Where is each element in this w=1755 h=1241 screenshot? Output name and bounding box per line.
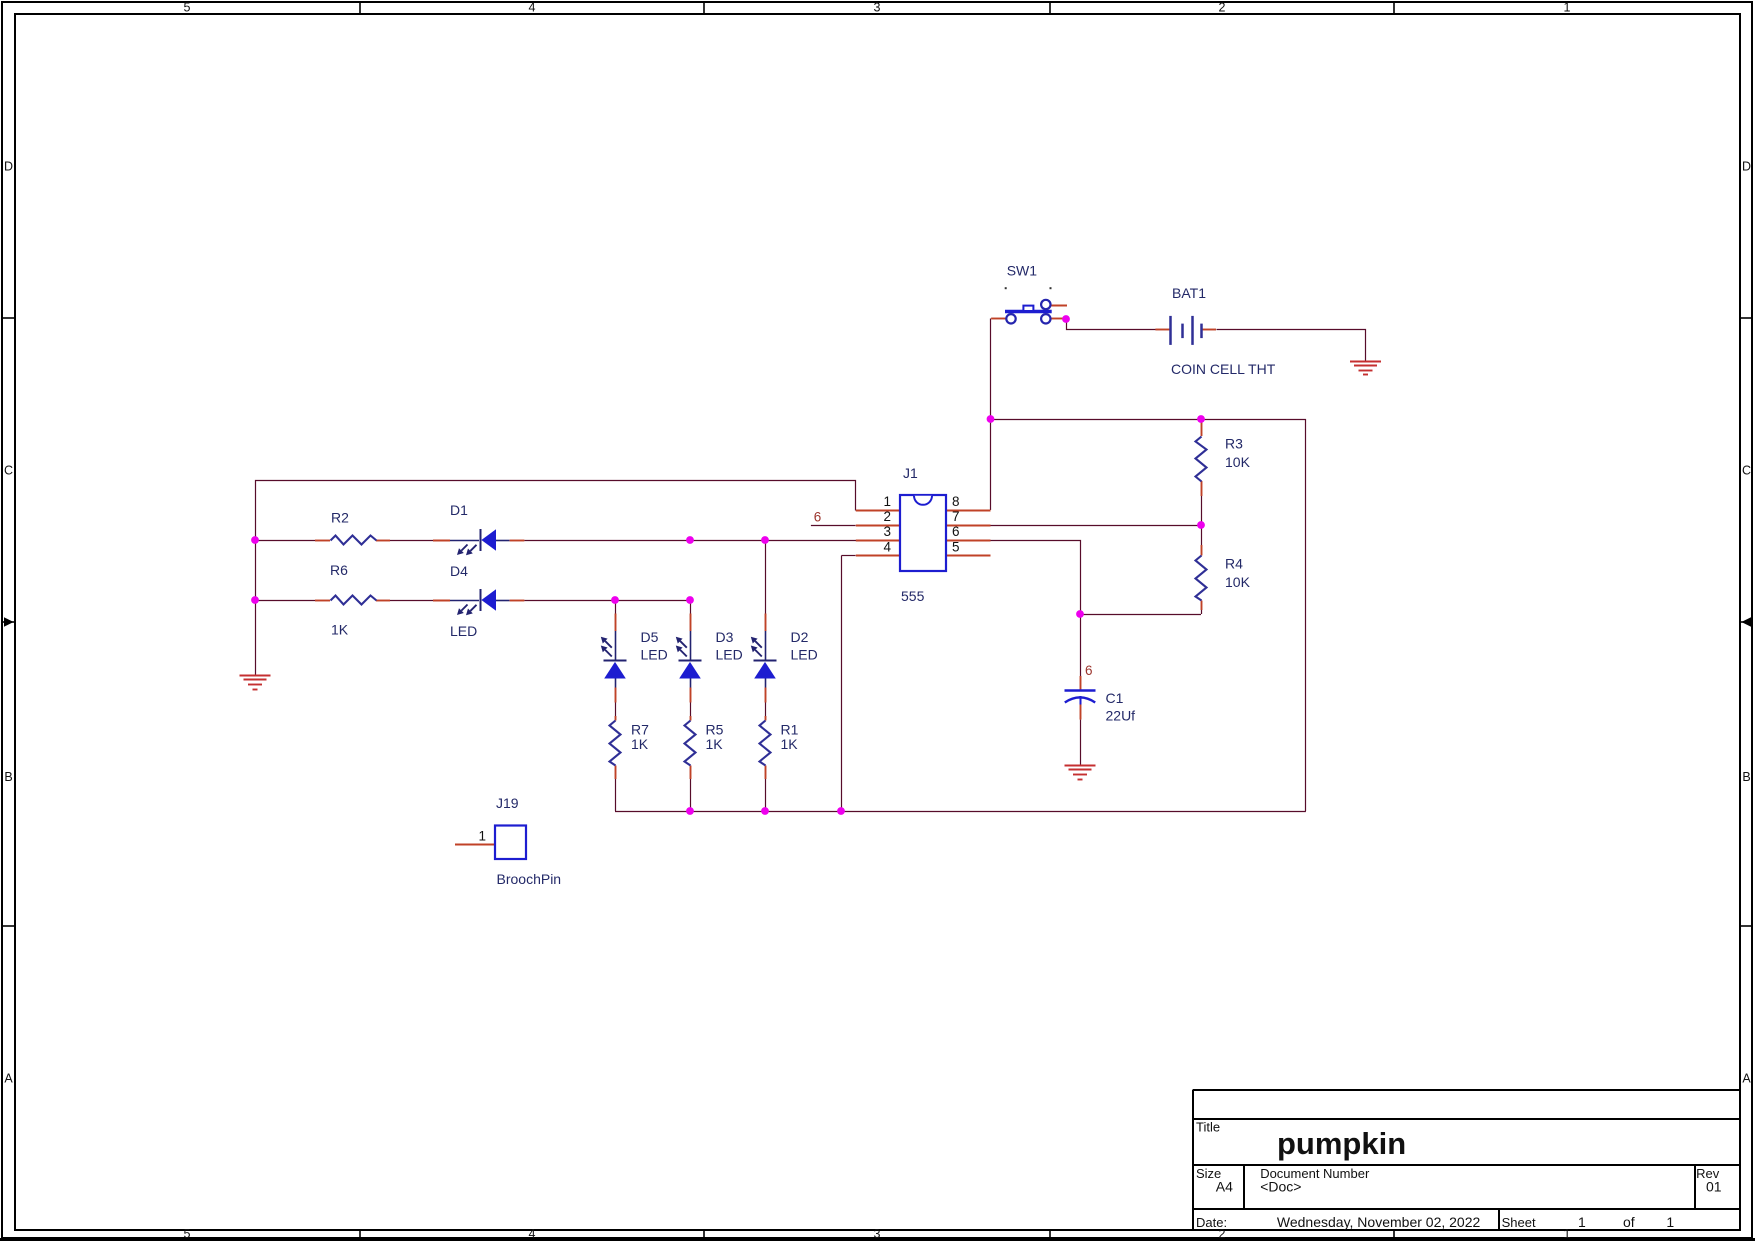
svg-text:2: 2 bbox=[883, 509, 891, 524]
svg-text:SW1: SW1 bbox=[1007, 263, 1038, 279]
svg-text:A: A bbox=[4, 1072, 13, 1086]
svg-text:6: 6 bbox=[1085, 663, 1093, 678]
svg-text:5: 5 bbox=[184, 1227, 191, 1241]
svg-text:4: 4 bbox=[529, 1227, 536, 1241]
svg-text:D: D bbox=[1742, 160, 1751, 174]
svg-text:A4: A4 bbox=[1216, 1178, 1233, 1194]
svg-text:BroochPin: BroochPin bbox=[497, 871, 562, 887]
svg-text:R4: R4 bbox=[1225, 556, 1243, 572]
svg-text:1K: 1K bbox=[781, 736, 799, 752]
svg-text:R3: R3 bbox=[1225, 436, 1243, 452]
svg-text:1: 1 bbox=[478, 829, 486, 844]
svg-text:4: 4 bbox=[883, 540, 891, 555]
svg-text:10K: 10K bbox=[1225, 454, 1251, 470]
svg-text:A: A bbox=[1742, 1072, 1751, 1086]
svg-text:Sheet: Sheet bbox=[1502, 1215, 1536, 1230]
svg-text:B: B bbox=[1742, 770, 1750, 784]
svg-text:D5: D5 bbox=[641, 629, 659, 645]
svg-text:BAT1: BAT1 bbox=[1172, 285, 1206, 301]
svg-text:5: 5 bbox=[184, 1, 191, 15]
svg-text:R6: R6 bbox=[330, 562, 348, 578]
svg-text:1: 1 bbox=[1578, 1214, 1586, 1230]
svg-text:2: 2 bbox=[1219, 1, 1226, 15]
svg-text:C: C bbox=[1742, 464, 1751, 478]
svg-text:6: 6 bbox=[814, 510, 822, 525]
svg-text:<Doc>: <Doc> bbox=[1260, 1178, 1301, 1194]
svg-text:J1: J1 bbox=[903, 465, 918, 481]
svg-text:LED: LED bbox=[716, 647, 743, 663]
svg-text:LED: LED bbox=[791, 647, 818, 663]
svg-text:B: B bbox=[4, 770, 12, 784]
svg-text:LED: LED bbox=[450, 623, 477, 639]
svg-text:Title: Title bbox=[1196, 1120, 1220, 1135]
svg-text:10K: 10K bbox=[1225, 574, 1251, 590]
svg-text:3: 3 bbox=[874, 1227, 881, 1241]
svg-text:22Uf: 22Uf bbox=[1106, 708, 1136, 724]
svg-text:C: C bbox=[4, 464, 13, 478]
svg-text:6: 6 bbox=[952, 524, 960, 539]
svg-text:COIN CELL THT: COIN CELL THT bbox=[1171, 361, 1276, 377]
svg-text:7: 7 bbox=[952, 509, 960, 524]
svg-text:555: 555 bbox=[901, 588, 925, 604]
svg-text:C1: C1 bbox=[1106, 690, 1124, 706]
svg-text:4: 4 bbox=[529, 1, 536, 15]
svg-text:1: 1 bbox=[883, 494, 891, 509]
svg-text:Wednesday, November 02, 2022: Wednesday, November 02, 2022 bbox=[1277, 1214, 1481, 1230]
svg-text:D1: D1 bbox=[450, 502, 468, 518]
svg-text:D4: D4 bbox=[450, 563, 468, 579]
svg-text:1: 1 bbox=[1564, 1227, 1571, 1241]
svg-text:1: 1 bbox=[1666, 1214, 1674, 1230]
svg-text:3: 3 bbox=[874, 1, 881, 15]
svg-text:3: 3 bbox=[883, 524, 891, 539]
svg-text:R2: R2 bbox=[331, 510, 349, 526]
svg-text:1K: 1K bbox=[706, 736, 724, 752]
svg-text:J19: J19 bbox=[496, 795, 519, 811]
svg-text:LED: LED bbox=[641, 647, 668, 663]
svg-text:1K: 1K bbox=[331, 622, 349, 638]
svg-text:pumpkin: pumpkin bbox=[1277, 1126, 1406, 1161]
svg-text:D2: D2 bbox=[791, 629, 809, 645]
svg-text:01: 01 bbox=[1706, 1178, 1722, 1194]
svg-text:8: 8 bbox=[952, 494, 960, 509]
svg-text:of: of bbox=[1623, 1214, 1635, 1230]
svg-text:Date:: Date: bbox=[1196, 1215, 1227, 1230]
svg-text:5: 5 bbox=[952, 540, 960, 555]
svg-text:D3: D3 bbox=[716, 629, 734, 645]
svg-text:1: 1 bbox=[1564, 1, 1571, 15]
svg-text:1K: 1K bbox=[631, 736, 649, 752]
svg-text:D: D bbox=[4, 160, 13, 174]
